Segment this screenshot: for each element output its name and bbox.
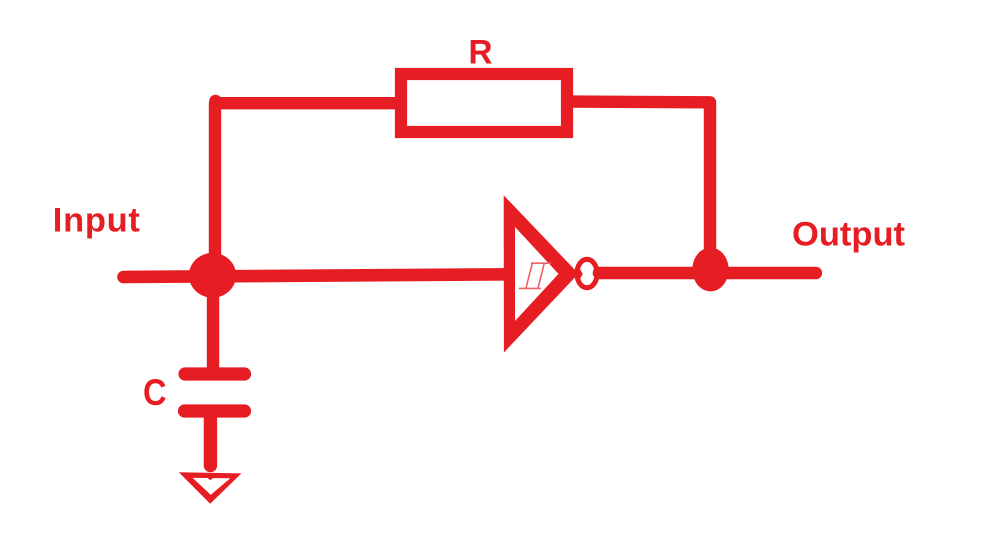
- hysteresis symbol: [519, 263, 551, 288]
- wire junction to capacitor: [207, 277, 219, 372]
- svg-text:R: R: [469, 33, 493, 71]
- svg-text:Input: Input: [53, 201, 141, 239]
- wire top-left corner join nub: [209, 95, 222, 108]
- wire resistor to right corner: [571, 102, 710, 258]
- svg-text:C: C: [143, 372, 167, 413]
- node input junction dot: [189, 253, 236, 298]
- capacitor C top plate: [185, 367, 245, 380]
- wire capacitor to ground: [204, 413, 217, 466]
- ground: [179, 472, 242, 504]
- ground stub tip bump: [207, 477, 215, 480]
- svg-text:Output: Output: [792, 216, 906, 254]
- inverter apex notch wedge: [577, 264, 583, 284]
- resistor R: [401, 74, 567, 132]
- wire output horizontal: [599, 267, 816, 280]
- node output junction dot: [692, 248, 728, 292]
- capacitor C bottom plate: [185, 404, 245, 417]
- op-amp U1 schmitt inverter triangle: [504, 195, 579, 352]
- inverter output bubble: [577, 259, 597, 287]
- wire feedback left vertical: [215, 103, 395, 276]
- wire input horizontal: [124, 274, 519, 277]
